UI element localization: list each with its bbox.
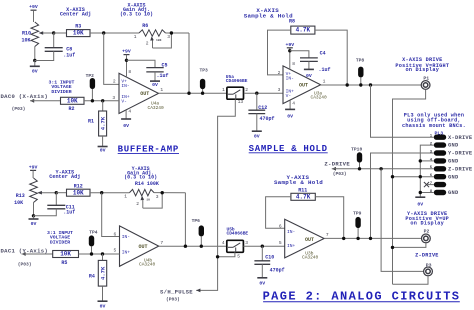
- svg-text:CA3240: CA3240: [139, 261, 156, 267]
- svg-text:IN-: IN-: [121, 83, 129, 89]
- U4a pin8 supply stub: [126, 60, 128, 77]
- ground (C12): [252, 114, 262, 140]
- wire R3 to R6: [90, 32, 139, 34]
- node R13 wiper: [55, 191, 58, 194]
- svg-text:+9V: +9V: [29, 165, 38, 171]
- junction R8 feedback: [346, 83, 349, 86]
- analog switch U5b CD4066BE: [227, 240, 244, 252]
- svg-text:2: 2: [136, 201, 139, 207]
- wire Y output row to P2: [324, 237, 421, 239]
- svg-text:2: 2: [113, 79, 116, 85]
- svg-text:.1uf: .1uf: [63, 53, 75, 59]
- power +9V (U4a pin8): [122, 49, 131, 61]
- svg-text:R10: R10: [22, 30, 31, 36]
- wire Z bus to P3: [381, 169, 423, 272]
- svg-text:0V: 0V: [287, 113, 293, 119]
- label PAGE 2: ANALOG CIRCUITS title: [263, 290, 461, 304]
- wire DAC1 to R5: [22, 253, 53, 255]
- svg-text:.1uf: .1uf: [63, 210, 75, 216]
- wire node B to U4b IN-: [102, 193, 120, 237]
- wire R10 bottom: [34, 47, 36, 61]
- wire U5a to U3a IN+: [244, 92, 283, 94]
- junction TP3: [201, 92, 204, 95]
- resistor R11 4.7K: [291, 193, 315, 200]
- svg-text:4.7K: 4.7K: [296, 193, 311, 200]
- junction S/H line: [216, 255, 219, 258]
- svg-text:4: 4: [292, 100, 295, 106]
- wire R5 to U4b IN+: [79, 253, 120, 255]
- junction R11 feedback: [342, 237, 345, 240]
- svg-text:IN-: IN-: [287, 229, 295, 235]
- svg-text:1: 1: [134, 34, 137, 40]
- svg-text:2: 2: [245, 87, 248, 93]
- wire S/H pulse line: [196, 99, 235, 290]
- svg-text:5: 5: [279, 240, 282, 246]
- junction R4: [101, 252, 104, 255]
- U3b pin numbers: [279, 223, 329, 246]
- wire U5b to U3b IN+: [243, 245, 284, 247]
- junction R6 pin3/wiper: [170, 31, 173, 34]
- svg-text:8: 8: [128, 69, 131, 75]
- junction TP4: [90, 252, 93, 255]
- connector PL3 pin 4: [430, 158, 459, 164]
- U5a pin numbers: [222, 87, 248, 105]
- svg-text:R4: R4: [89, 273, 95, 279]
- svg-text:3: 3: [278, 87, 281, 93]
- svg-text:GND: GND: [448, 143, 459, 149]
- svg-text:R1: R1: [88, 119, 94, 125]
- ground (PL3 gnd bus): [415, 197, 425, 208]
- capacitor C12 470pf: [256, 93, 258, 110]
- wire P1 shell ground bus: [393, 90, 426, 285]
- svg-text:2: 2: [146, 40, 149, 46]
- junction shell bus P2: [391, 246, 394, 249]
- R10 wiper arrow: [39, 31, 54, 35]
- svg-text:10K: 10K: [60, 251, 71, 258]
- connector P1 (X-axis BNC): [421, 75, 430, 89]
- svg-text:1: 1: [222, 87, 225, 93]
- svg-text:OUT: OUT: [139, 244, 148, 250]
- svg-text:4: 4: [222, 240, 225, 246]
- svg-text:1: 1: [323, 79, 326, 85]
- junction R10/C8 ground node: [33, 59, 36, 62]
- wire wiper to C11: [55, 193, 57, 206]
- svg-text:TP9: TP9: [353, 210, 362, 216]
- svg-text:10K: 10K: [73, 30, 84, 37]
- svg-text:OUT: OUT: [299, 83, 308, 89]
- wire X-drive to PL3 pin1: [371, 85, 434, 137]
- svg-text:3: 3: [156, 194, 159, 200]
- junction Y feedback/output: [184, 245, 187, 248]
- svg-text:(P03): (P03): [166, 297, 180, 303]
- off-page arrow DAC0: [30, 99, 34, 103]
- svg-text:4: 4: [128, 109, 131, 115]
- resistor R3 10K: [67, 30, 91, 37]
- svg-text:10: 10: [146, 199, 150, 202]
- svg-text:R3: R3: [75, 24, 81, 30]
- connector PL3 pin 7: [430, 182, 446, 187]
- wire PL3 pin4 gnd: [420, 160, 434, 162]
- svg-text:CA3240: CA3240: [148, 105, 165, 111]
- ground (R10/C8): [30, 61, 40, 75]
- svg-text:6: 6: [279, 223, 282, 229]
- wire P2 shell to shell bus: [393, 243, 426, 248]
- wire Z-DRIVE to PL3 pin5: [332, 168, 434, 170]
- svg-text:CD4066BE: CD4066BE: [227, 231, 249, 237]
- svg-text:.1uf: .1uf: [319, 67, 331, 73]
- junction Z bus: [379, 167, 382, 170]
- resistor R1 4.7K: [99, 101, 107, 136]
- U4a pin numbers: [112, 69, 163, 115]
- junction TP10: [358, 167, 361, 170]
- test point TP2: [86, 73, 95, 101]
- power +9V (U3a pin8): [285, 42, 294, 51]
- test point TP6: [192, 218, 204, 246]
- resistor R5 10K: [53, 251, 79, 258]
- svg-text:10K: 10K: [21, 37, 30, 43]
- resistor R12 10K: [67, 189, 91, 196]
- svg-text:R14 100K: R14 100K: [135, 181, 159, 187]
- svg-text:IN-: IN-: [122, 234, 130, 240]
- wire U4b out to U5b: [159, 245, 227, 247]
- junction C10/hold node: [261, 245, 264, 248]
- svg-text:R2: R2: [68, 106, 74, 112]
- U3a pin numbers: [278, 61, 326, 107]
- wire R14 to feedback corner: [154, 192, 185, 194]
- wire R8 to U3a IN-: [268, 30, 291, 75]
- svg-text:TP2: TP2: [86, 73, 95, 79]
- wire P3 shell to shell bus: [393, 276, 429, 284]
- svg-text:IN-: IN-: [286, 76, 294, 82]
- resistor R4 4.7K: [98, 254, 106, 286]
- connector PL3 pin 5: [430, 166, 473, 172]
- svg-text:R13: R13: [16, 193, 25, 199]
- svg-text:0V: 0V: [100, 148, 106, 154]
- svg-text:3: 3: [167, 34, 170, 40]
- svg-text:Z-DRIVE: Z-DRIVE: [324, 161, 350, 168]
- svg-text:IN+: IN+: [122, 250, 131, 256]
- svg-text:0V: 0V: [123, 123, 129, 129]
- junction C12/hold node: [255, 92, 258, 95]
- test point TP10: [351, 147, 362, 169]
- power +9V (R10 top): [29, 4, 38, 22]
- svg-text:4.7K: 4.7K: [296, 27, 311, 34]
- wire U4a out to U5a: [159, 92, 227, 94]
- svg-text:S/H_PULSE: S/H_PULSE: [160, 289, 193, 296]
- svg-text:5: 5: [114, 247, 117, 253]
- svg-text:+9V: +9V: [285, 42, 294, 48]
- svg-text:Sample & Hold: Sample & Hold: [274, 179, 323, 186]
- junction feedback/output: [187, 92, 190, 95]
- svg-text:3: 3: [112, 95, 115, 101]
- wire X output row to P1: [321, 84, 422, 86]
- svg-text:Z-DRIVE: Z-DRIVE: [415, 252, 439, 258]
- svg-text:P1: P1: [423, 75, 429, 81]
- svg-text:Z-DRIVE: Z-DRIVE: [448, 166, 473, 172]
- wire R12 to R14: [90, 192, 130, 194]
- junction +9V/C5: [125, 59, 128, 62]
- svg-text:(P03): (P03): [12, 106, 26, 112]
- node R10 wiper: [52, 31, 55, 34]
- analog switch U5a CD4066BE: [227, 87, 244, 99]
- connector PL3 pin 3: [430, 150, 473, 156]
- wire +9V to C5: [127, 60, 156, 67]
- svg-text:V-: V-: [286, 93, 292, 99]
- svg-text:2: 2: [278, 70, 281, 76]
- ground (U4a pin4): [121, 119, 131, 129]
- connector PL3 pin 6: [430, 174, 459, 180]
- wire wiper to R3: [54, 32, 67, 34]
- svg-text:GND: GND: [448, 190, 459, 196]
- capacitor C12 plates: [248, 110, 265, 113]
- U5b pin numbers: [222, 240, 248, 260]
- wire R6 to feedback corner: [166, 32, 190, 34]
- power +9V (R13 top): [29, 165, 38, 178]
- junction gnd bus pin8: [419, 191, 422, 194]
- junction R13/C11 ground node: [32, 214, 35, 217]
- svg-text:(0.3 to 10): (0.3 to 10): [124, 175, 157, 181]
- ground (C5): [150, 72, 160, 88]
- U4b pin numbers: [114, 231, 164, 253]
- svg-text:10K: 10K: [156, 39, 162, 42]
- svg-text:10K: 10K: [67, 97, 78, 104]
- svg-text:OUT: OUT: [305, 237, 314, 243]
- svg-text:0V: 0V: [259, 281, 265, 287]
- potentiometer R14 (Y gain): [130, 189, 155, 195]
- potentiometer R6 (X gain): [139, 30, 166, 36]
- resistor R8 4.7K: [291, 26, 315, 34]
- U4a pin4 stub: [125, 110, 127, 119]
- svg-text:TP8: TP8: [356, 58, 365, 64]
- test point TP9: [353, 210, 362, 238]
- svg-text:TP3: TP3: [199, 67, 208, 73]
- wire +9V to C4: [290, 51, 309, 58]
- wire Y feedback vertical: [184, 193, 186, 247]
- svg-text:0V: 0V: [254, 133, 260, 139]
- U3a pin4 stub: [289, 100, 291, 109]
- wire X feedback vertical: [188, 33, 190, 93]
- R6 wiper arrow: [150, 36, 154, 48]
- svg-text:0V: 0V: [32, 68, 38, 74]
- svg-text:C4: C4: [320, 50, 326, 56]
- svg-text:(P03): (P03): [333, 171, 347, 177]
- svg-text:4.7K: 4.7K: [100, 116, 107, 130]
- svg-text:CA3240: CA3240: [302, 254, 319, 260]
- svg-text:0V: 0V: [152, 82, 158, 88]
- svg-text:R8: R8: [289, 19, 295, 25]
- wire Y-drive to PL3 pin3: [371, 153, 434, 238]
- svg-text:P2: P2: [424, 229, 430, 235]
- svg-text:X-DRIVE: X-DRIVE: [448, 135, 473, 141]
- wire PL3 pin8 gnd: [420, 192, 434, 194]
- svg-text:10K: 10K: [73, 189, 84, 196]
- off-page arrow S/H_PULSE: [196, 289, 200, 293]
- svg-text:R6: R6: [142, 23, 148, 29]
- PL3 pin7 no-connect X: [424, 182, 434, 187]
- test point TP3: [199, 67, 208, 93]
- svg-text:6: 6: [114, 231, 117, 237]
- svg-text:R5: R5: [61, 260, 67, 266]
- connector PL3 pin 1: [430, 135, 473, 141]
- wire wiper to R12: [56, 192, 66, 194]
- capacitor C11 .1uf: [47, 205, 65, 209]
- svg-text:10K: 10K: [14, 200, 23, 206]
- svg-text:C12: C12: [258, 105, 267, 111]
- svg-text:.1uf: .1uf: [157, 73, 169, 79]
- wire PL3 gnd bus: [420, 145, 434, 197]
- svg-text:+9V: +9V: [122, 49, 131, 55]
- ground (U3a pin4): [285, 109, 295, 119]
- junction X-drive branch: [369, 83, 372, 86]
- wire R6 wiper loop: [153, 33, 172, 48]
- junction gnd bus pin4: [419, 159, 422, 162]
- label SAMPLE & HOLD title: [249, 144, 328, 154]
- R13 wiper arrow: [37, 191, 56, 195]
- svg-text:(0.3 to 10): (0.3 to 10): [120, 11, 153, 17]
- ground (R13/C11): [29, 216, 39, 227]
- svg-text:IN+: IN+: [287, 243, 296, 249]
- svg-text:Center Adj: Center Adj: [60, 12, 91, 18]
- svg-text:0V: 0V: [306, 73, 312, 79]
- ground (R4): [98, 286, 108, 309]
- svg-text:TP6: TP6: [192, 218, 201, 224]
- svg-text:TP4: TP4: [89, 230, 98, 236]
- svg-text:on Display: on Display: [405, 67, 439, 73]
- potentiometer R10 10K (X center adj): [31, 22, 39, 47]
- svg-text:470pf: 470pf: [270, 268, 285, 274]
- junction TP6: [200, 245, 203, 248]
- svg-text:C10: C10: [265, 255, 274, 261]
- svg-text:TP10: TP10: [351, 147, 362, 153]
- U3a pin8 supply stub: [289, 48, 291, 69]
- test point TP8: [356, 58, 365, 85]
- wire R14 wiper loop: [143, 193, 162, 208]
- svg-text:GND: GND: [448, 159, 459, 165]
- svg-text:5: 5: [237, 254, 240, 260]
- wire R8 to X output: [315, 30, 347, 85]
- svg-text:(P03): (P03): [18, 262, 32, 268]
- wire R11 to U3b IN-: [266, 197, 291, 228]
- wire wiper to C8: [53, 33, 55, 48]
- node A (X summing node): [102, 31, 105, 34]
- svg-text:R12: R12: [74, 183, 83, 189]
- svg-text:CA3240: CA3240: [311, 95, 328, 101]
- wire U5b pin5 to S/H line: [218, 252, 235, 256]
- svg-text:DIVIDER: DIVIDER: [51, 89, 71, 95]
- svg-text:Center Adj: Center Adj: [49, 174, 80, 180]
- capacitor C5 .1uf: [146, 68, 163, 72]
- svg-text:1: 1: [124, 194, 127, 200]
- junction R14 pin3/wiper: [161, 191, 164, 194]
- junction TP2: [91, 99, 94, 102]
- svg-text:7: 7: [326, 232, 329, 238]
- svg-text:470pf: 470pf: [260, 116, 275, 122]
- svg-text:0V: 0V: [100, 303, 106, 309]
- label BUFFER-AMP title: [118, 145, 179, 155]
- wire C11 to ground node: [34, 209, 57, 216]
- svg-text:CD4066BE: CD4066BE: [226, 78, 248, 84]
- capacitor C8 .1uf: [45, 48, 63, 52]
- capacitor C10 470pf: [261, 246, 263, 261]
- capacitor C4 .1uf: [300, 58, 318, 62]
- wire R13 bottom: [33, 203, 35, 216]
- svg-text:DAC0 (X-Axis): DAC0 (X-Axis): [1, 93, 49, 100]
- svg-text:V-: V-: [121, 99, 127, 105]
- svg-text:chassis mount BNCs.: chassis mount BNCs.: [402, 123, 466, 129]
- svg-text:3: 3: [245, 240, 248, 246]
- node B (Y summing node): [100, 191, 103, 194]
- test point TP4: [89, 230, 98, 254]
- junction R1: [101, 99, 104, 102]
- svg-text:8: 8: [292, 61, 295, 67]
- wire R2 to U4a IN+: [84, 100, 119, 102]
- junction gnd bus pin6: [419, 175, 422, 178]
- connector PL3 pin 8: [430, 190, 459, 196]
- svg-text:C5: C5: [162, 62, 168, 68]
- svg-text:13: 13: [238, 99, 244, 105]
- connector P2 (Y-axis BNC): [422, 229, 431, 243]
- op-amp U3a CA3240 (X sample hold): [283, 66, 321, 104]
- ground (R1): [98, 136, 108, 154]
- junction Y-drive branch: [369, 237, 372, 240]
- op-amp U3b CA3240 (Y sample hold): [285, 219, 324, 258]
- off-page arrow DAC1: [22, 252, 26, 256]
- svg-text:+9V: +9V: [29, 4, 38, 10]
- wire PL3 pin6 gnd: [393, 176, 434, 178]
- svg-text:Sample & Hold: Sample & Hold: [244, 12, 293, 19]
- wire DAC0 to R2: [30, 100, 61, 102]
- junction shell bus pin6: [391, 175, 394, 178]
- op-amp U4b CA3240 (Y buffer): [120, 226, 159, 266]
- op-amp U4a CA3240 (X buffer): [119, 73, 159, 113]
- ground (C10): [257, 264, 267, 286]
- connector PL3 pin 2: [430, 142, 459, 148]
- svg-text:7: 7: [160, 240, 163, 246]
- svg-text:1: 1: [160, 87, 163, 93]
- wire C8 to ground node: [35, 51, 54, 60]
- junction TP9: [356, 237, 359, 240]
- off-page arrow Z-DRIVE: [332, 167, 336, 171]
- wire R11 to Y output: [315, 197, 343, 239]
- potentiometer R13 10K (Y center adj): [30, 178, 38, 203]
- svg-text:P3: P3: [426, 263, 432, 269]
- svg-text:OUT: OUT: [140, 91, 149, 97]
- junction TP8: [359, 83, 362, 86]
- svg-text:DIVIDER: DIVIDER: [50, 239, 70, 245]
- resistor R2 10K: [61, 97, 85, 104]
- junction +9V/C4: [288, 49, 291, 52]
- svg-text:0V: 0V: [417, 201, 423, 207]
- svg-text:4.7K: 4.7K: [99, 266, 106, 280]
- svg-text:on Display: on Display: [410, 220, 444, 226]
- capacitor C10 plates: [254, 261, 270, 265]
- svg-text:GND: GND: [448, 174, 459, 180]
- ground (C4): [304, 61, 314, 79]
- svg-text:0V: 0V: [31, 221, 37, 227]
- R14 wiper arrow: [141, 196, 145, 208]
- svg-text:Y-DRIVE: Y-DRIVE: [448, 151, 473, 157]
- connector P3 (Z-axis BNC): [424, 263, 433, 276]
- wire node A to U4a IN-: [104, 33, 119, 84]
